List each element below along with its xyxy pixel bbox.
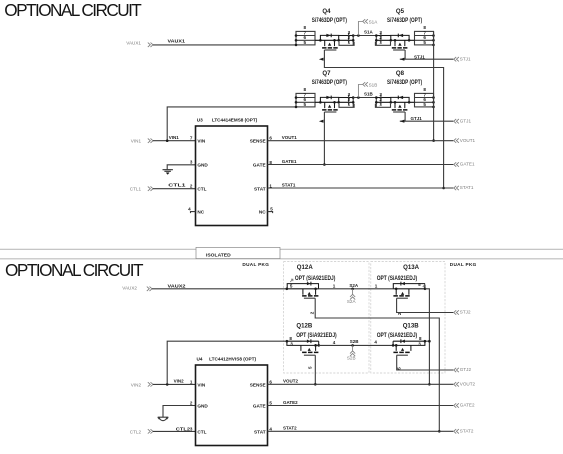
svg-text:OPT (SiA921EDJ): OPT (SiA921EDJ) [296,332,337,339]
ground (U3 GND pin) [163,165,196,175]
connector CTL1 with wire and net label [130,187,153,192]
connector STAT2 [454,429,474,434]
transistor Q8 Si7463DP [375,70,435,112]
svg-text:VIN2: VIN2 [131,382,142,387]
svg-text:ISOLATED: ISOLATED [206,253,231,258]
svg-text:Q12B: Q12B [296,323,313,330]
svg-text:8: 8 [423,25,426,30]
node S2A [347,283,359,304]
connector VAUX2 [122,285,152,291]
svg-text:GATE: GATE [253,404,266,409]
svg-text:8: 8 [419,336,422,341]
wire GTJ2 from Q13B gate [397,355,454,370]
dual pkg dashed box left [242,262,369,373]
svg-text:VAUX1: VAUX1 [126,41,141,46]
svg-text:STAT1: STAT1 [460,185,474,190]
wire VIN2 [153,383,196,385]
connector STJ2 [454,310,471,315]
connector GTJ2 [454,367,472,372]
svg-text:CTL2: CTL2 [176,427,191,432]
svg-text:6: 6 [269,136,272,141]
svg-text:8: 8 [289,336,292,341]
svg-text:GTJ1: GTJ1 [460,118,472,123]
svg-text:2: 2 [190,183,193,188]
svg-text:CTL2: CTL2 [130,429,142,434]
svg-text:STJ2: STJ2 [460,310,471,315]
svg-text:VOUT2: VOUT2 [283,379,299,384]
op-amp / IC U4 LTC4412HVIS8 [190,356,273,445]
dual pkg dashed box right [371,262,477,373]
wire CTL1 [153,188,196,190]
svg-text:8: 8 [423,87,426,92]
node S2B [347,339,359,361]
wire SENSE to VOUT2 [268,383,454,385]
svg-text:Si7463DP (OPT): Si7463DP (OPT) [387,79,422,86]
svg-text:GND: GND [197,404,208,409]
svg-text:SENSE: SENSE [250,139,266,144]
transistor Q5 Si7463DP [375,8,435,50]
svg-text:Si7463DP (OPT): Si7463DP (OPT) [312,79,347,86]
svg-text:GTJ1: GTJ1 [411,116,423,121]
svg-text:5: 5 [307,366,312,369]
op-amp / IC U3 LTC4414EMS8 [188,117,273,225]
svg-text:VIN: VIN [197,139,205,144]
svg-text:CTL: CTL [197,429,206,434]
connector STAT1 [454,185,474,190]
svg-text:CTL1: CTL1 [130,187,142,192]
svg-text:VIN2: VIN2 [174,379,185,384]
wire net S2B [319,344,393,346]
svg-text:OPT (SiA921EDJ): OPT (SiA921EDJ) [377,332,418,339]
svg-text:S2B: S2B [350,339,360,344]
wire STAT to STAT2 [268,430,454,432]
transistor Q12A SiA921EDJ [286,264,336,314]
svg-text:CTL: CTL [197,187,206,192]
wire Q13A/Q13B drain down to VOUT2 [425,289,430,385]
svg-text:STAT: STAT [254,187,266,192]
connector GTJ1 [454,118,472,123]
wire CTL2 [153,430,196,432]
svg-text:STAT1: STAT1 [282,182,296,187]
ground (U4 GND pin) [158,406,196,421]
svg-text:Q7: Q7 [322,70,331,77]
svg-text:OPTIONAL CIRCUIT: OPTIONAL CIRCUIT [4,0,142,20]
svg-text:CTL1: CTL1 [168,183,186,188]
svg-text:5: 5 [270,206,273,211]
svg-text:S1A: S1A [369,19,379,24]
svg-text:STJ1: STJ1 [460,56,471,61]
svg-text:Q12A: Q12A [297,264,314,271]
svg-text:Q8: Q8 [396,70,405,77]
transistor Q13A SiA921EDJ [375,264,427,315]
svg-text:VAUX2: VAUX2 [122,285,137,290]
wire Q5 gate / STJ1 [400,50,454,59]
sheet divider lines [0,249,563,258]
wire VAUX1 to Q4 [153,44,296,46]
connector VAUX1 (off-page input) [126,41,153,47]
svg-text:SENSE: SENSE [250,382,266,387]
svg-text:GATE2: GATE2 [283,400,298,405]
svg-text:LTC4412HVIS8 (OPT): LTC4412HVIS8 (OPT) [209,356,256,361]
svg-text:VOUT1: VOUT1 [282,135,298,140]
svg-text:NC: NC [259,209,266,214]
svg-text:NC: NC [197,209,204,214]
svg-text:VIN1: VIN1 [169,135,180,140]
wire STAT to STAT1 [268,187,454,189]
svg-text:DUAL PKG: DUAL PKG [242,262,269,267]
wire VIN1 branch up to Q7 [167,107,296,141]
svg-text:GND: GND [197,163,208,168]
wire VAUX2 to Q12A [152,288,287,290]
ISOLATED label box [196,247,280,258]
wire net S1A [353,35,376,37]
wire VIN1 [153,140,196,142]
wire SENSE to VOUT1 [268,140,454,142]
svg-text:OPT (SiA921EDJ): OPT (SiA921EDJ) [377,275,418,282]
svg-text:GATE: GATE [253,163,266,168]
svg-text:STJ1: STJ1 [414,54,425,59]
svg-text:U3: U3 [197,117,203,122]
wire Q4 gate to STAT1 (loop) [324,50,443,188]
svg-text:OPTIONAL CIRCUIT: OPTIONAL CIRCUIT [5,260,144,280]
connector VIN1 with wire and net label [131,139,153,144]
svg-text:Si7463DP (OPT): Si7463DP (OPT) [387,17,422,24]
svg-text:STAT2: STAT2 [460,429,474,434]
node S1A [357,19,378,37]
svg-text:7: 7 [190,135,193,140]
svg-text:8: 8 [304,87,307,92]
connector VOUT1 [454,138,476,143]
transistor Q13B SiA921EDJ [374,323,426,370]
wire GATE to GATE1 [268,164,454,166]
svg-text:VIN: VIN [197,382,205,387]
transistor Q12B SiA921EDJ [286,323,337,369]
svg-text:S1A: S1A [364,30,374,35]
svg-text:4: 4 [333,340,336,345]
transistor Q4 Si7463DP [295,8,355,50]
svg-text:STAT: STAT [254,429,266,434]
svg-text:GATE2: GATE2 [460,403,475,408]
svg-text:Q13A: Q13A [403,264,420,271]
node S1B [357,82,377,99]
svg-text:S2A: S2A [349,283,359,288]
svg-text:Q4: Q4 [322,8,331,15]
svg-text:LTC4414EMS8 (OPT): LTC4414EMS8 (OPT) [212,117,258,122]
connector GATE2 [454,403,475,408]
svg-text:OPT (SiA921EDJ): OPT (SiA921EDJ) [295,275,336,282]
wire Q7 gate to GATE1 [323,112,325,165]
svg-text:GATE1: GATE1 [460,162,475,167]
connector CTL2 with wire [130,429,153,434]
svg-text:Q13B: Q13B [403,323,420,330]
svg-text:3: 3 [190,160,193,165]
svg-text:Si7463DP (OPT): Si7463DP (OPT) [312,17,347,24]
svg-text:VOUT1: VOUT1 [460,138,476,143]
svg-text:VIN1: VIN1 [131,139,142,144]
svg-text:U4: U4 [197,356,203,361]
wire VIN2 branch up to Q12B [167,341,287,384]
pin NC stubs [191,212,273,214]
svg-text:DUAL PKG: DUAL PKG [450,262,477,267]
svg-text:4: 4 [188,206,191,211]
svg-text:VAUX2: VAUX2 [168,283,187,288]
svg-text:S2B: S2B [347,356,356,361]
wire net S1B [353,97,376,99]
svg-text:Q5: Q5 [396,8,405,15]
svg-text:5: 5 [418,282,421,287]
svg-text:STAT2: STAT2 [283,426,297,431]
svg-text:GTJ2: GTJ2 [460,367,472,372]
wire Q12B gate to VOUT2 [314,355,316,384]
svg-text:S1B: S1B [364,92,374,97]
svg-text:S2A: S2A [347,299,357,304]
svg-text:1: 1 [375,283,378,288]
wire Q5/Q8 drain bus down to VOUT1 [433,31,435,140]
svg-text:4: 4 [374,340,377,345]
connector STJ1 [454,56,471,61]
svg-text:2: 2 [309,311,314,314]
transistor Q7 Si7463DP [295,70,355,112]
wire Q12A gate to STAT2 (loop) [315,298,439,431]
svg-text:1: 1 [333,283,336,288]
connector GATE1 [454,162,475,167]
connector VIN2 with wire [131,382,153,387]
svg-text:8: 8 [304,25,307,30]
wire net S2A [319,288,394,290]
wire STJ2 from Q13A gate [397,298,454,312]
svg-text:S1B: S1B [369,82,378,87]
wire Q8 gate / GTJ1 [400,112,454,121]
svg-text:VOUT2: VOUT2 [460,382,476,387]
svg-text:VAUX1: VAUX1 [168,39,186,44]
svg-text:GATE1: GATE1 [282,159,297,164]
wire GATE to GATE2 [268,405,454,407]
connector VOUT2 [454,382,476,387]
